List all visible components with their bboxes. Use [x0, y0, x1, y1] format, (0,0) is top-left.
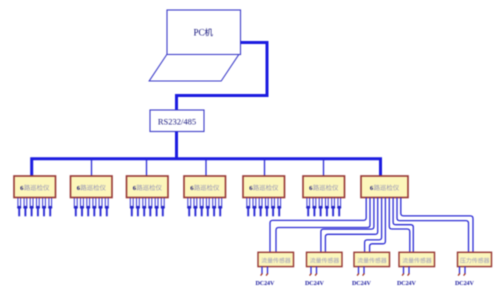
bus RS485 trunk (thick) [32, 159, 381, 177]
power lead 2 of sensor E [464, 267, 466, 276]
pin 6 of instrument 3 [161, 198, 165, 216]
pin 2 of instrument 2 [80, 198, 84, 216]
wire bus drop to instrument 5 [264, 159, 266, 177]
svg-text:RS232/485: RS232/485 [158, 117, 196, 127]
wire instrument7 ch10 to sensor E [401, 198, 473, 253]
power lead 1 of sensor B [310, 267, 312, 276]
pin 5 of instrument 6 [331, 198, 335, 216]
pin 5 of instrument 3 [155, 198, 159, 216]
pin 1 of instrument 5 [246, 198, 250, 216]
instrument box 6 6路巡检仪 [303, 176, 345, 198]
instrument box 7 6路巡检仪 [361, 176, 408, 198]
pin 6 of instrument 6 [337, 198, 341, 216]
label DC24V for sensor A [256, 281, 275, 287]
pin 3 of instrument 3 [142, 198, 146, 216]
wire instrument7 ch3 to sensor B [321, 198, 374, 253]
power lead 1 of sensor D [402, 267, 404, 276]
pin 4 of instrument 5 [265, 198, 269, 216]
sensor box C 流量传感器 [354, 252, 390, 266]
pin 1 of instrument 3 [130, 198, 134, 216]
svg-text:DC24V: DC24V [256, 281, 275, 287]
pin 5 of instrument 4 [212, 198, 216, 216]
pin 4 of instrument 3 [148, 198, 152, 216]
pin 1 of instrument 2 [74, 198, 78, 216]
pin 2 of instrument 1 [23, 198, 27, 216]
pin 2 of instrument 3 [136, 198, 140, 216]
wire instrument7 ch2 to sensor A [276, 198, 370, 253]
wire instrument7 ch4 to sensor B [325, 198, 377, 253]
power lead 1 of sensor C [357, 267, 359, 276]
pin 5 of instrument 1 [42, 198, 46, 216]
label PC机 [194, 28, 213, 38]
pin 2 of instrument 4 [193, 198, 197, 216]
instrument box 4 6路巡检仪 [184, 176, 226, 198]
wire bus drop to instrument 3 [146, 159, 148, 177]
pin 3 of instrument 2 [86, 198, 90, 216]
sensor box A 流量传感器 [258, 252, 294, 266]
label DC24V for sensor E [455, 281, 474, 287]
pin 4 of instrument 4 [206, 198, 210, 216]
pin 6 of instrument 4 [218, 198, 222, 216]
pin 5 of instrument 5 [271, 198, 275, 216]
pin 3 of instrument 4 [200, 198, 204, 216]
svg-text:DC24V: DC24V [397, 281, 416, 287]
power lead 2 of sensor D [408, 267, 410, 276]
wire bus drop to instrument 4 [205, 159, 207, 177]
wire RS232/485 to bus (thick) [175, 132, 178, 159]
svg-text:DC24V: DC24V [305, 281, 324, 287]
power lead 1 of sensor A [261, 267, 263, 276]
wire instrument7 ch9 to sensor E [397, 198, 469, 253]
wire instrument7 ch7 to sensor D [389, 198, 410, 253]
pin 2 of instrument 6 [312, 198, 316, 216]
wire instrument7 ch5 to sensor C [365, 198, 382, 253]
instrument box 1 6路巡检仪 [14, 176, 56, 198]
label DC24V for sensor C [352, 281, 371, 287]
pin 2 of instrument 5 [252, 198, 256, 216]
svg-text:DC24V: DC24V [352, 281, 371, 287]
sensor box E 压力传感器 [458, 252, 492, 266]
label RS232/485 [158, 117, 196, 127]
wire instrument7 ch8 to sensor D [393, 198, 413, 253]
power lead 2 of sensor C [363, 267, 365, 276]
power lead 2 of sensor B [315, 267, 317, 276]
pin 3 of instrument 5 [259, 198, 263, 216]
pin 4 of instrument 2 [92, 198, 96, 216]
sensor box B 流量传感器 [307, 252, 343, 266]
pin 6 of instrument 2 [105, 198, 109, 216]
wire bus drop to instrument 6 [323, 159, 325, 177]
pin 5 of instrument 2 [98, 198, 102, 216]
label DC24V for sensor B [305, 281, 324, 287]
pin 1 of instrument 6 [306, 198, 310, 216]
power lead 1 of sensor E [458, 267, 460, 276]
pin 3 of instrument 1 [30, 198, 34, 216]
pin 1 of instrument 1 [17, 198, 21, 216]
wire bus drop to instrument 2 [91, 159, 93, 177]
PC laptop base [149, 55, 239, 82]
pin 4 of instrument 1 [36, 198, 40, 216]
PC laptop screen [167, 10, 241, 55]
pin 3 of instrument 6 [319, 198, 323, 216]
instrument box 5 6路巡检仪 [243, 176, 285, 198]
instrument box 2 6路巡检仪 [71, 176, 113, 198]
wire PC to RS232/485 (thick) [177, 43, 268, 111]
svg-text:PC: PC [194, 28, 205, 38]
pin 6 of instrument 1 [48, 198, 52, 216]
label DC24V for sensor D [397, 281, 416, 287]
wire instrument7 ch6 to sensor C [370, 198, 386, 253]
pin 6 of instrument 5 [277, 198, 281, 216]
converter box RS232/485 [150, 110, 204, 132]
wire instrument7 ch1 to sensor A [270, 198, 366, 253]
svg-text:DC24V: DC24V [455, 281, 474, 287]
sensor box D 流量传感器 [399, 252, 435, 266]
power lead 2 of sensor A [266, 267, 268, 276]
pin 4 of instrument 6 [325, 198, 329, 216]
instrument box 3 6路巡检仪 [127, 176, 169, 198]
pin 1 of instrument 4 [187, 198, 191, 216]
